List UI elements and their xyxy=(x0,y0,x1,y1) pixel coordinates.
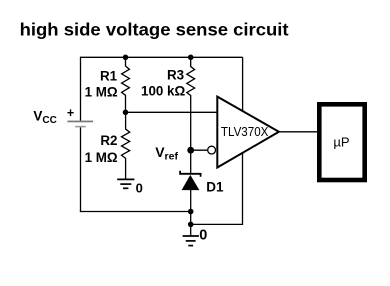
inverting input bubble xyxy=(208,146,216,154)
node dot top of R3 xyxy=(188,55,194,61)
svg-text:0: 0 xyxy=(136,181,143,196)
wire bottom rail xyxy=(80,211,191,213)
ground below R2 xyxy=(117,179,134,188)
resistor R3 xyxy=(187,57,195,173)
ground main xyxy=(183,236,199,246)
svg-text:R1: R1 xyxy=(100,68,118,83)
wire left rail upper xyxy=(80,57,82,121)
wire op-amp positive supply from top rail xyxy=(242,57,244,111)
node Vref dot xyxy=(187,147,194,154)
svg-text:high side voltage sense circui: high side voltage sense circuit xyxy=(20,20,289,40)
wire op-amp output xyxy=(279,131,317,133)
node dot ground junction xyxy=(188,222,194,228)
svg-text:D1: D1 xyxy=(206,179,224,194)
wire D1 to bottom xyxy=(190,190,192,236)
svg-text:1 MΩ: 1 MΩ xyxy=(85,84,118,99)
microprocessor box xyxy=(319,104,364,180)
svg-text:R3: R3 xyxy=(167,67,184,82)
wire op-amp negative supply return xyxy=(191,153,243,225)
svg-text:0: 0 xyxy=(199,227,207,243)
svg-text:µP: µP xyxy=(333,134,349,149)
resistor R1 xyxy=(122,57,130,112)
battery VCC xyxy=(67,121,93,123)
wire top rail xyxy=(81,56,243,58)
zener diode D1 xyxy=(180,171,201,190)
svg-text:1 MΩ: 1 MΩ xyxy=(85,150,118,165)
wire mid rail to op-amp +input xyxy=(126,111,218,113)
op-amp U1 TLV370X xyxy=(217,97,279,168)
node dot top of R1 xyxy=(123,55,129,61)
svg-text:R2: R2 xyxy=(100,133,117,148)
svg-text:TLV370X: TLV370X xyxy=(221,124,269,139)
wire Vref to inverting input bubble xyxy=(191,149,208,151)
node dot R1/R2 midpoint xyxy=(123,110,129,116)
resistor R2 xyxy=(122,112,130,179)
svg-text:100 kΩ: 100 kΩ xyxy=(141,84,186,99)
node dot bottom rail junction xyxy=(188,209,194,215)
svg-text:+: + xyxy=(67,106,74,120)
wire left rail lower xyxy=(80,127,82,212)
